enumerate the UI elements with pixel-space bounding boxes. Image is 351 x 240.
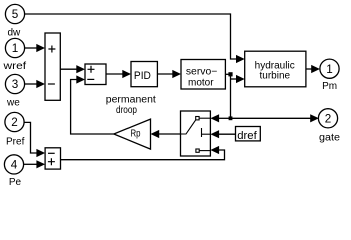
wire Sum1 to Sum2 + xyxy=(60,68,78,70)
wire hydraulic turbine to outport Pm xyxy=(306,68,313,70)
wire switch output to gain Rp xyxy=(157,133,181,135)
outport 1 Pm circle xyxy=(320,59,339,78)
hydraulic turbine block xyxy=(245,51,306,87)
wire Sum2 to PID xyxy=(106,73,125,75)
inport 3 circle xyxy=(5,74,24,93)
outport 2 gate circle xyxy=(318,109,337,128)
wire junction to outport gate xyxy=(231,117,313,119)
switch port 1 square xyxy=(196,117,199,120)
svg-text:2: 2 xyxy=(11,116,18,129)
inport 2 circle xyxy=(5,112,24,131)
wire branch to hydraulic turbine input 2 xyxy=(231,78,238,80)
switch port 2 tick xyxy=(201,128,203,137)
svg-text:we: we xyxy=(6,97,20,108)
svg-text:wref: wref xyxy=(2,61,26,72)
sum block Sum1 xyxy=(45,33,60,100)
sum block Sum2 xyxy=(85,64,106,85)
wire junction to switch input 1 xyxy=(217,117,231,119)
wire dw(5) to hydraulic turbine input 1 xyxy=(25,14,237,59)
svg-text:servo−: servo− xyxy=(186,66,218,77)
svg-text:PID: PID xyxy=(134,70,151,82)
wire inport 2 Pref to Sum3 - xyxy=(24,122,38,153)
wire junction down to gate line xyxy=(230,74,232,118)
svg-text:turbine: turbine xyxy=(260,71,291,82)
wire gain Rp to Sum2 - xyxy=(71,80,114,135)
svg-text:Pe: Pe xyxy=(9,177,22,188)
svg-text:Pref: Pref xyxy=(6,137,25,148)
svg-text:Pm: Pm xyxy=(322,81,337,92)
gain Rp triangle xyxy=(114,119,151,149)
svg-text:3: 3 xyxy=(12,78,19,91)
svg-text:5: 5 xyxy=(12,8,19,21)
wire PID to servo-motor xyxy=(157,73,174,75)
switch port 3 lead xyxy=(199,150,210,152)
svg-text:gate: gate xyxy=(319,132,340,143)
junction dot on gate line xyxy=(229,116,233,120)
svg-text:2: 2 xyxy=(325,113,332,126)
dref constant block xyxy=(236,127,261,141)
inport 1 circle xyxy=(5,38,24,57)
PID controller block xyxy=(131,62,157,87)
svg-text:dw: dw xyxy=(8,28,22,39)
wire inport 1 to Sum1 + xyxy=(25,47,38,49)
servo-motor block xyxy=(181,60,225,90)
switch port 2 lead xyxy=(202,133,211,135)
wire inport 3 to Sum1 - xyxy=(25,83,38,85)
inport 4 circle xyxy=(4,155,23,174)
svg-text:permanent: permanent xyxy=(106,95,156,106)
wire Sum3 to switch input 3 xyxy=(61,150,225,160)
switch lever diagonal xyxy=(181,120,196,134)
switch port 3 square xyxy=(196,149,199,152)
svg-text:droop: droop xyxy=(116,105,137,116)
switch port 1 lead xyxy=(199,117,210,119)
switch block xyxy=(181,111,211,156)
junction dot xyxy=(228,72,232,76)
inport 5 circle xyxy=(5,4,24,23)
svg-text:1: 1 xyxy=(12,42,19,55)
svg-text:motor: motor xyxy=(188,77,214,88)
svg-text:Rp: Rp xyxy=(131,129,141,140)
wire servo-motor output to junction xyxy=(225,73,230,75)
wire dref to switch input 2 xyxy=(217,133,236,135)
svg-text:1: 1 xyxy=(326,63,333,76)
wire inport 4 Pe to Sum3 + xyxy=(24,163,38,165)
svg-text:dref: dref xyxy=(237,130,257,142)
sum block Sum3 xyxy=(45,148,60,169)
svg-text:4: 4 xyxy=(11,159,18,172)
